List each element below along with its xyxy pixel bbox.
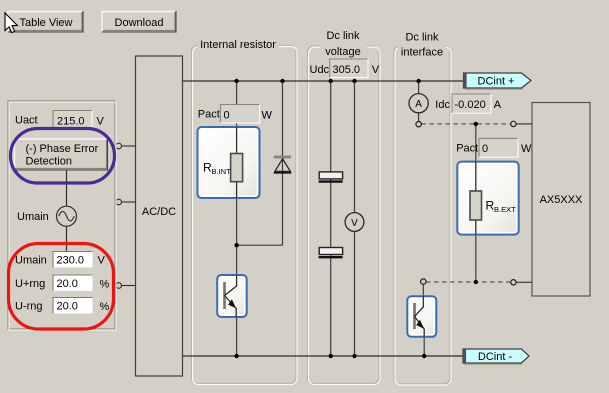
svg-text:(-) Phase Error: (-) Phase Error [26,143,99,155]
svg-text:U+rng: U+rng [15,278,45,290]
svg-text:0: 0 [482,143,488,155]
svg-text:Uact: Uact [15,115,38,127]
svg-text:0: 0 [224,109,230,121]
svg-text:Table View: Table View [20,17,73,29]
svg-text:%: % [100,301,110,313]
svg-text:DCint -: DCint - [478,351,513,363]
svg-text:V: V [97,116,105,128]
svg-text:Detection: Detection [26,156,72,168]
svg-text:Udc: Udc [310,64,330,76]
svg-text:Idc: Idc [435,99,450,111]
svg-text:215.0: 215.0 [57,116,85,128]
svg-text:230.0: 230.0 [57,255,85,267]
svg-text:Umain: Umain [17,211,49,223]
svg-text:Pact: Pact [198,109,220,121]
svg-text:Dc link: Dc link [326,30,360,42]
svg-text:V: V [351,218,358,229]
svg-text:20.0: 20.0 [57,278,78,290]
svg-text:B.INT: B.INT [212,167,232,176]
svg-text:V: V [372,64,380,76]
svg-text:interface: interface [401,47,443,59]
svg-text:Pact: Pact [456,143,478,155]
svg-text:305.0: 305.0 [333,64,361,76]
svg-text:A: A [415,99,422,110]
svg-text:Download: Download [115,17,164,29]
svg-text:B.EXT: B.EXT [494,205,516,214]
svg-text:voltage: voltage [325,46,360,58]
svg-text:%: % [100,279,110,291]
svg-text:Internal resistor: Internal resistor [200,39,276,51]
svg-text:-0.020: -0.020 [455,99,486,111]
svg-text:20.0: 20.0 [57,301,78,313]
svg-text:W: W [521,143,532,155]
svg-text:Dc link: Dc link [405,32,439,44]
svg-text:V: V [98,255,106,267]
svg-text:AX5XXX: AX5XXX [540,194,583,206]
svg-text:AC/DC: AC/DC [142,206,176,218]
svg-text:DCint +: DCint + [478,76,515,88]
svg-text:Umain: Umain [15,255,47,267]
svg-text:A: A [494,99,502,111]
svg-text:U-rng: U-rng [15,301,43,313]
svg-text:W: W [262,109,273,121]
